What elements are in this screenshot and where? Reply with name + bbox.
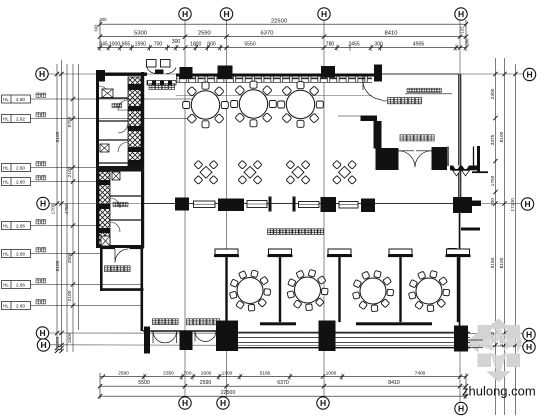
svg-text:2350: 2350 (163, 370, 174, 376)
svg-text:1300: 1300 (222, 370, 233, 376)
svg-text:1750: 1750 (490, 175, 496, 186)
svg-text:5300: 5300 (134, 31, 147, 37)
svg-text:1590: 1590 (135, 42, 146, 48)
svg-text:9150: 9150 (490, 257, 496, 268)
svg-text:2300: 2300 (490, 88, 496, 99)
svg-text:4905: 4905 (413, 42, 424, 48)
svg-text:5750: 5750 (67, 116, 73, 127)
svg-text:2.66: 2.66 (16, 223, 25, 228)
svg-text:HL: HL (3, 223, 9, 228)
svg-text:8410: 8410 (385, 31, 398, 37)
svg-text:2100: 2100 (67, 290, 73, 301)
svg-text:5550: 5550 (244, 42, 255, 48)
svg-text:17100: 17100 (510, 198, 516, 212)
svg-text:HL: HL (3, 303, 9, 308)
svg-text:1500: 1500 (67, 332, 73, 343)
svg-text:2.60: 2.60 (16, 179, 25, 184)
svg-text:2.68: 2.68 (16, 251, 25, 256)
svg-text:700: 700 (183, 370, 191, 376)
svg-text:2560: 2560 (118, 370, 129, 376)
svg-text:5500: 5500 (138, 380, 150, 386)
svg-text:8410: 8410 (388, 380, 400, 386)
svg-text:2.60: 2.60 (16, 303, 25, 308)
svg-text:700: 700 (154, 42, 163, 48)
svg-text:2590: 2590 (200, 380, 212, 386)
svg-text:HL: HL (3, 116, 9, 121)
svg-text:5180: 5180 (260, 370, 271, 376)
svg-text:955: 955 (122, 42, 131, 48)
svg-text:2.60: 2.60 (16, 97, 25, 102)
svg-text:22500: 22500 (221, 390, 236, 396)
svg-text:780: 780 (326, 42, 335, 48)
svg-text:700: 700 (490, 198, 496, 206)
svg-text:8100: 8100 (55, 260, 61, 271)
svg-text:HL: HL (3, 179, 9, 184)
svg-text:22500: 22500 (271, 19, 287, 25)
svg-text:2.62: 2.62 (16, 116, 25, 121)
svg-text:1300: 1300 (55, 336, 61, 347)
svg-text:HL: HL (3, 251, 9, 256)
svg-text:HL: HL (3, 165, 9, 170)
svg-text:2590: 2590 (198, 31, 211, 37)
svg-text:6370: 6370 (261, 31, 274, 37)
svg-text:1600: 1600 (201, 370, 212, 376)
svg-text:8100: 8100 (499, 257, 505, 268)
svg-text:200: 200 (465, 38, 470, 46)
svg-text:8100: 8100 (499, 131, 505, 142)
svg-text:1000: 1000 (109, 42, 120, 48)
svg-text:600: 600 (94, 24, 99, 32)
svg-text:7400: 7400 (415, 370, 426, 376)
svg-text:2.60: 2.60 (16, 165, 25, 170)
svg-text:300: 300 (172, 39, 181, 45)
svg-text:zhulong.com: zhulong.com (462, 384, 536, 399)
svg-text:6370: 6370 (277, 380, 289, 386)
svg-text:300: 300 (100, 17, 108, 22)
svg-text:3375: 3375 (490, 134, 496, 145)
svg-text:4750: 4750 (64, 203, 70, 214)
svg-text:2.66: 2.66 (16, 282, 25, 287)
svg-text:102: 102 (460, 26, 465, 34)
svg-text:HL: HL (3, 97, 9, 102)
svg-text:HL: HL (3, 282, 9, 287)
svg-text:1000: 1000 (326, 370, 337, 376)
svg-text:8100: 8100 (55, 131, 61, 142)
